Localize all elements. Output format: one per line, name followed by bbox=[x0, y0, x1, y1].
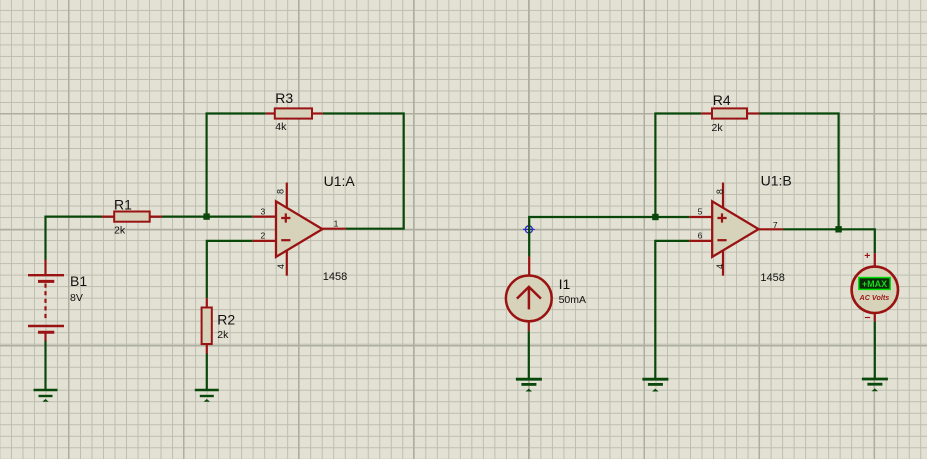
svg-text:3: 3 bbox=[260, 206, 265, 216]
wire R4 right to output junction bbox=[760, 114, 839, 230]
wire R2 top to pin2 bbox=[207, 241, 253, 298]
svg-text:B1: B1 bbox=[70, 273, 87, 289]
ground I1 bbox=[516, 379, 542, 391]
power pin 8 (top) bbox=[286, 183, 288, 209]
minus symbol bbox=[717, 239, 726, 241]
resistor R3 bbox=[266, 90, 323, 133]
svg-text:5: 5 bbox=[698, 207, 703, 217]
svg-text:50mA: 50mA bbox=[559, 294, 586, 306]
node junction output/meter bbox=[835, 226, 841, 232]
ground B1 bbox=[34, 390, 58, 402]
svg-text:4k: 4k bbox=[275, 121, 287, 133]
ground R2 bbox=[195, 390, 219, 402]
svg-text:1: 1 bbox=[334, 218, 339, 228]
svg-text:R4: R4 bbox=[713, 92, 731, 108]
svg-text:8: 8 bbox=[276, 189, 286, 194]
power pin 4 (bottom) bbox=[286, 250, 288, 276]
pin 6 stub bbox=[689, 240, 712, 242]
wire B1 top to pin3 net bbox=[46, 217, 253, 260]
resistor R2 bbox=[202, 298, 236, 354]
svg-text:6: 6 bbox=[698, 230, 703, 240]
svg-text:2k: 2k bbox=[114, 225, 126, 237]
svg-text:R3: R3 bbox=[275, 90, 293, 106]
ground meter bbox=[862, 379, 888, 391]
svg-text:−: − bbox=[864, 312, 870, 324]
svg-text:8: 8 bbox=[715, 189, 725, 194]
svg-text:4: 4 bbox=[715, 264, 725, 269]
svg-text:1458: 1458 bbox=[323, 271, 347, 283]
svg-text:7: 7 bbox=[773, 220, 778, 230]
wire junction up to R3 bbox=[207, 114, 266, 217]
svg-text:2k: 2k bbox=[217, 329, 229, 341]
wire meter bottom to ground bbox=[874, 321, 876, 379]
wire I1 bottom to ground bbox=[528, 331, 530, 379]
wire I1 top to pin5 net bbox=[529, 217, 689, 257]
current source I1 bbox=[506, 257, 586, 332]
wire pin6 to ground bbox=[655, 241, 689, 379]
wire R3 right to output bbox=[323, 114, 404, 229]
node junction R1/R3 bbox=[203, 213, 209, 219]
op-amp U1:A bbox=[253, 173, 356, 283]
svg-text:U1:B: U1:B bbox=[761, 173, 792, 189]
wire R2 bottom to ground bbox=[206, 354, 208, 390]
svg-text:U1:A: U1:A bbox=[324, 173, 356, 189]
plus symbol bbox=[717, 213, 726, 222]
origin marker (blue) bbox=[523, 224, 535, 236]
svg-text:+MAX: +MAX bbox=[862, 279, 887, 289]
svg-text:R2: R2 bbox=[217, 311, 235, 327]
meter display +MAX bbox=[859, 278, 890, 290]
svg-text:2: 2 bbox=[260, 230, 265, 240]
voltmeter VM1 bbox=[852, 250, 898, 324]
wire junction up to R4 bbox=[655, 114, 701, 218]
svg-text:+: + bbox=[864, 250, 870, 262]
svg-text:2k: 2k bbox=[712, 122, 724, 134]
resistor R4 bbox=[701, 92, 759, 134]
wire B1 bottom to ground bbox=[44, 340, 46, 390]
resistor R1 bbox=[102, 197, 162, 237]
pin 1 output stub bbox=[322, 228, 345, 230]
svg-text:4: 4 bbox=[276, 264, 286, 269]
ground pin6 bbox=[642, 379, 668, 391]
wire output to meter bbox=[783, 229, 875, 253]
power pin 4 (bottom) bbox=[722, 250, 724, 276]
pin 3 stub bbox=[253, 216, 276, 218]
arrow symbol bbox=[528, 287, 531, 309]
pin 5 stub bbox=[689, 216, 712, 218]
node junction pin5/R4 bbox=[652, 214, 658, 220]
pin 2 stub bbox=[253, 240, 276, 242]
battery B1 bbox=[28, 260, 87, 342]
svg-text:R1: R1 bbox=[114, 197, 132, 213]
svg-text:1458: 1458 bbox=[760, 272, 784, 284]
plus symbol bbox=[281, 213, 290, 222]
svg-text:8V: 8V bbox=[70, 292, 83, 304]
op-amp U1:B bbox=[689, 173, 791, 284]
minus symbol bbox=[281, 239, 290, 241]
svg-text:AC Volts: AC Volts bbox=[859, 293, 890, 302]
svg-text:I1: I1 bbox=[559, 276, 571, 292]
power pin 8 (top) bbox=[722, 183, 724, 209]
pin 7 output stub bbox=[759, 228, 783, 230]
